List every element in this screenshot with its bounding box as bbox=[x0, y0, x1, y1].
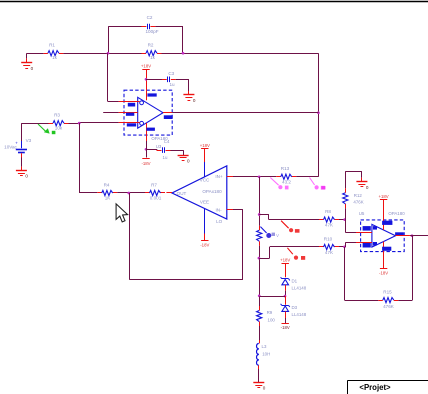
svg-text:-18V: -18V bbox=[200, 243, 209, 248]
svg-text:0: 0 bbox=[31, 66, 34, 71]
svg-text:10H: 10H bbox=[262, 351, 270, 356]
svg-text:+18V: +18V bbox=[141, 63, 151, 68]
svg-text:R13: R13 bbox=[281, 166, 290, 171]
svg-text:+18V: +18V bbox=[280, 258, 290, 263]
svg-text:R9: R9 bbox=[267, 310, 273, 315]
svg-text:C3: C3 bbox=[168, 71, 174, 76]
svg-text:0.001: 0.001 bbox=[150, 195, 162, 200]
svg-text:LL4148: LL4148 bbox=[292, 312, 307, 317]
svg-text:VCC: VCC bbox=[200, 177, 210, 182]
svg-text:C4: C4 bbox=[164, 139, 170, 144]
svg-text:OPAx180: OPAx180 bbox=[202, 189, 222, 194]
svg-text:1u: 1u bbox=[169, 82, 175, 87]
svg-text:-18V: -18V bbox=[379, 271, 388, 276]
svg-text:47K: 47K bbox=[325, 223, 334, 228]
svg-text:IN-: IN- bbox=[216, 207, 223, 212]
svg-text:<Projet>: <Projet> bbox=[359, 383, 391, 392]
svg-text:IN+: IN+ bbox=[215, 174, 223, 179]
svg-text:476K: 476K bbox=[353, 199, 363, 204]
svg-text:R10: R10 bbox=[324, 236, 333, 241]
svg-text:OPA180: OPA180 bbox=[388, 211, 405, 216]
svg-text:U5: U5 bbox=[359, 211, 365, 216]
svg-text:47K: 47K bbox=[325, 250, 334, 255]
svg-text:10Vac: 10Vac bbox=[4, 144, 17, 149]
svg-text:0: 0 bbox=[187, 158, 190, 163]
svg-text:10k: 10k bbox=[55, 126, 63, 131]
svg-text:100pF: 100pF bbox=[145, 29, 158, 34]
svg-text:0: 0 bbox=[193, 98, 196, 103]
svg-text:R2: R2 bbox=[148, 42, 154, 47]
svg-text:D3: D3 bbox=[292, 305, 298, 310]
svg-text:476K: 476K bbox=[383, 304, 395, 309]
svg-text:LL4148: LL4148 bbox=[292, 285, 307, 290]
svg-text:V: V bbox=[276, 233, 279, 238]
svg-text:1K: 1K bbox=[105, 195, 112, 200]
svg-text:R1: R1 bbox=[49, 42, 55, 47]
svg-text:0: 0 bbox=[366, 185, 369, 190]
svg-text:VEE: VEE bbox=[200, 199, 209, 204]
svg-text:0: 0 bbox=[263, 386, 266, 391]
svg-text:+18V: +18V bbox=[379, 194, 389, 199]
svg-text:1u: 1u bbox=[163, 155, 168, 160]
svg-text:U3: U3 bbox=[156, 144, 162, 149]
svg-text:1k: 1k bbox=[52, 55, 58, 60]
svg-text:-18V: -18V bbox=[141, 161, 150, 166]
svg-text:R15: R15 bbox=[383, 289, 392, 294]
svg-text:R12: R12 bbox=[354, 193, 363, 198]
svg-text:+18V: +18V bbox=[200, 143, 210, 148]
svg-text:OUT: OUT bbox=[177, 191, 187, 196]
svg-text:-18V: -18V bbox=[281, 325, 290, 330]
svg-text:100: 100 bbox=[268, 317, 276, 322]
svg-text:L3: L3 bbox=[262, 344, 267, 349]
svg-text:C2: C2 bbox=[147, 15, 153, 20]
svg-text:R8: R8 bbox=[325, 209, 331, 214]
svg-text:R4: R4 bbox=[104, 182, 110, 187]
svg-text:V3: V3 bbox=[26, 138, 32, 143]
svg-text:0: 0 bbox=[25, 174, 28, 179]
svg-text:R7: R7 bbox=[151, 182, 157, 187]
svg-text:LO: LO bbox=[216, 219, 223, 224]
svg-text:D1: D1 bbox=[292, 278, 298, 283]
svg-text:43.2: 43.2 bbox=[282, 180, 291, 185]
svg-text:R3: R3 bbox=[54, 112, 60, 117]
svg-text:1k: 1k bbox=[150, 55, 156, 60]
